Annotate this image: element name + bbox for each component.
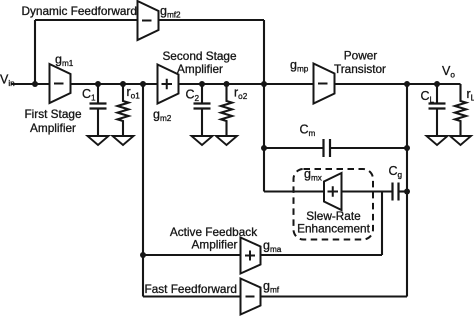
ground below ro2 bbox=[216, 136, 237, 145]
svg-text:ro2: ro2 bbox=[234, 86, 248, 102]
plus sign in gma bbox=[245, 251, 255, 261]
wire gma output up to gmx output node bbox=[381, 192, 383, 256]
wire vertical from top feedforward down to gmx input bbox=[263, 20, 265, 192]
op-amp gm1 first stage bbox=[50, 64, 71, 103]
capacitor C1 stub bottom bbox=[97, 109, 99, 137]
capacitor CL stub bottom bbox=[436, 109, 438, 137]
op-amp gma active feedback bbox=[241, 238, 261, 274]
svg-text:Amplifier: Amplifier bbox=[30, 121, 76, 135]
plus sign in gmx bbox=[328, 186, 339, 197]
wire first-stage node down left side bbox=[142, 84, 144, 297]
resistor ro1 bbox=[118, 84, 129, 136]
plus sign in gm2 bbox=[162, 79, 173, 90]
ground below rL bbox=[450, 136, 471, 145]
svg-text:Cg: Cg bbox=[389, 164, 403, 180]
ground below ro1 bbox=[113, 136, 134, 145]
node output Vo vertical bbox=[404, 81, 410, 87]
capacitor CL stub top bbox=[436, 84, 438, 103]
wire Vin node up to dynamic feedforward bbox=[34, 20, 36, 84]
capacitor C2 plates bbox=[194, 104, 211, 109]
wire Cm row right segment bbox=[331, 147, 408, 149]
node Cm left bbox=[261, 145, 267, 151]
svg-text:Vo: Vo bbox=[442, 64, 455, 80]
node gmf2 output join bbox=[261, 81, 267, 87]
svg-text:gma: gma bbox=[263, 239, 282, 255]
node C2 bbox=[199, 81, 205, 87]
svg-text:C2: C2 bbox=[186, 88, 200, 104]
node Vin junction bbox=[32, 81, 38, 87]
capacitor C2 stub bottom bbox=[201, 109, 203, 137]
resistor rL bbox=[455, 84, 466, 136]
svg-text:gmp: gmp bbox=[290, 58, 309, 74]
node ro1 bbox=[120, 81, 126, 87]
ground below CL bbox=[427, 136, 448, 145]
node first stage output tee bbox=[140, 81, 146, 87]
capacitor C1 stub top bbox=[97, 84, 99, 103]
svg-text:Enhancement: Enhancement bbox=[297, 222, 371, 236]
svg-text:Cm: Cm bbox=[300, 123, 316, 139]
ground below C1 bbox=[88, 136, 109, 145]
node CL bbox=[434, 81, 440, 87]
op-amp gm2 second stage bbox=[158, 65, 179, 104]
ground below C2 bbox=[192, 136, 213, 145]
wire main signal line Vin to output bbox=[11, 83, 461, 85]
svg-text:Amplifier: Amplifier bbox=[192, 238, 238, 252]
wire Cm row left segment bbox=[264, 147, 323, 149]
wire top feedforward horizontal bbox=[35, 19, 264, 21]
capacitor CL plates bbox=[429, 104, 446, 109]
svg-text:Vin: Vin bbox=[0, 73, 15, 89]
svg-text:Amplifier: Amplifier bbox=[177, 62, 223, 76]
capacitor Cm plates bbox=[324, 139, 331, 157]
node C1 bbox=[95, 81, 101, 87]
capacitor Cg plates bbox=[393, 183, 399, 201]
svg-text:ro1: ro1 bbox=[127, 85, 141, 101]
svg-text:CL: CL bbox=[421, 89, 435, 105]
wire active feedback row bbox=[143, 254, 382, 256]
svg-text:Transistor: Transistor bbox=[334, 62, 386, 76]
op-amp gmf fast feedforward bbox=[241, 279, 261, 315]
svg-text:rL: rL bbox=[467, 87, 474, 103]
svg-text:gmf2: gmf2 bbox=[160, 4, 181, 20]
minus sign in gmf2 bbox=[142, 20, 152, 22]
wire Cg to output vertical bbox=[399, 190, 408, 192]
node Cg right bbox=[404, 189, 410, 195]
node active feedback tee bbox=[140, 252, 146, 258]
svg-text:gm2: gm2 bbox=[153, 108, 172, 124]
node Cm right bbox=[404, 145, 410, 151]
wire fast feedforward row bbox=[143, 295, 407, 297]
minus sign in gmp bbox=[318, 83, 328, 85]
svg-text:Power: Power bbox=[344, 49, 378, 63]
wire output vertical down right side bbox=[406, 84, 408, 297]
op-amp gmp power transistor bbox=[314, 64, 335, 104]
capacitor C2 stub top bbox=[201, 84, 203, 103]
svg-text:Dynamic Feedforward: Dynamic Feedforward bbox=[22, 4, 137, 18]
dashed box slew-rate enhancement bbox=[294, 169, 374, 240]
minus sign in gm1 bbox=[54, 83, 64, 85]
svg-text:First Stage: First Stage bbox=[24, 107, 81, 121]
op-amp gmx slew-rate (left-pointing) bbox=[324, 173, 342, 210]
svg-text:Second Stage: Second Stage bbox=[162, 49, 237, 63]
op-amp gmf2 dynamic feedforward bbox=[138, 1, 159, 40]
svg-text:gm1: gm1 bbox=[55, 53, 74, 69]
svg-text:C1: C1 bbox=[82, 87, 96, 103]
minus sign in gmf bbox=[246, 296, 255, 298]
capacitor C1 plates bbox=[90, 104, 107, 109]
node ro2 bbox=[224, 81, 230, 87]
resistor ro2 bbox=[221, 84, 232, 136]
svg-text:Fast Feedforward: Fast Feedforward bbox=[145, 282, 237, 296]
wire gmx input row bbox=[264, 190, 392, 192]
svg-text:gmf: gmf bbox=[263, 279, 280, 295]
